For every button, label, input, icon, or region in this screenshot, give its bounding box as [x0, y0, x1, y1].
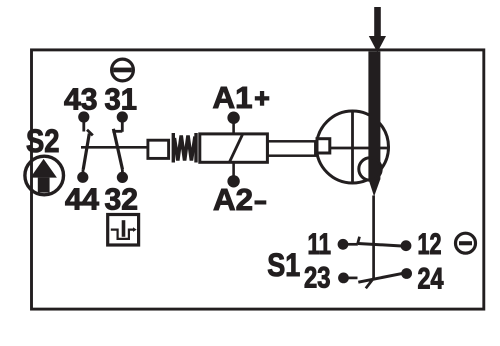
contact 31-32 seat tick: [112, 130, 122, 133]
contact 43-44 top dot: [78, 111, 89, 122]
contact 11-12 left dot: [338, 239, 349, 250]
svg-text:24: 24: [418, 263, 444, 296]
contact 11-12 blade: [358, 244, 406, 247]
svg-text:S2: S2: [26, 123, 60, 159]
latch box: [317, 139, 330, 153]
contact 31-32 top stub: [121, 117, 124, 132]
contact 11-12 tip tick: [358, 237, 360, 244]
insertion icon box: [108, 215, 139, 246]
svg-text:44: 44: [65, 182, 99, 216]
cam horizontal line: [331, 147, 389, 150]
terminal A1 dot: [227, 112, 239, 124]
cam disc circle: [317, 111, 389, 183]
actuation direction symbol: [25, 156, 64, 195]
actuator entry arrow: [369, 7, 386, 52]
positive-opening symbol bottom: [456, 233, 476, 253]
svg-text:12: 12: [418, 228, 442, 261]
insertion icon: [111, 220, 137, 239]
terminal A1 stub: [232, 118, 235, 134]
contact 11-12 left stub: [344, 243, 358, 246]
contact 23-24 blade: [358, 273, 405, 282]
svg-text:32: 32: [105, 182, 139, 216]
svg-text:A1: A1: [213, 80, 253, 115]
link rod: [268, 141, 316, 155]
terminal A2 dot: [227, 175, 239, 187]
actuator bar: [368, 52, 380, 197]
contact 43-44 bottom dot: [77, 172, 88, 183]
svg-text:31: 31: [105, 83, 138, 117]
contact 43-44 tip tick: [87, 130, 93, 136]
svg-text:A2: A2: [213, 182, 253, 217]
roller ring: [359, 158, 381, 180]
contact 31-32 bottom dot: [117, 172, 128, 183]
svg-text:11: 11: [308, 228, 332, 261]
terminal A2 stub: [232, 163, 235, 182]
contact 31-32 top dot: [117, 111, 128, 122]
contact 11-12 right dot: [401, 240, 412, 251]
actuator line to S1: [372, 196, 375, 281]
label A1 plus sign: [255, 91, 269, 106]
contact 23-24 right dot: [401, 268, 412, 279]
contact 23-24 left stub: [345, 277, 358, 280]
svg-text:23: 23: [304, 262, 331, 295]
svg-text:S1: S1: [267, 247, 300, 283]
positive-opening symbol top: [112, 59, 134, 81]
spring left plate: [172, 133, 175, 163]
spring coil: [174, 136, 195, 161]
solenoid diagonal: [230, 135, 243, 163]
contact 43-44 bottom stub: [82, 170, 85, 178]
contact 31-32 bottom stub: [121, 170, 124, 178]
mechanical link line: [81, 146, 148, 149]
svg-text:43: 43: [64, 83, 98, 117]
cam vertical line: [351, 111, 354, 183]
spring right plate: [194, 133, 197, 163]
plunger box: [148, 140, 169, 158]
solenoid U1 body: [200, 134, 268, 162]
contact 31-32 blade: [113, 129, 122, 170]
actuator line bend: [366, 279, 374, 289]
contact 43-44 blade: [83, 134, 89, 170]
contact 43-44 top stub: [82, 117, 85, 132]
roller disc: [359, 158, 381, 180]
contact 23-24 left dot: [338, 273, 349, 284]
label A2 minus sign: [255, 200, 267, 204]
border frame: [32, 50, 484, 309]
